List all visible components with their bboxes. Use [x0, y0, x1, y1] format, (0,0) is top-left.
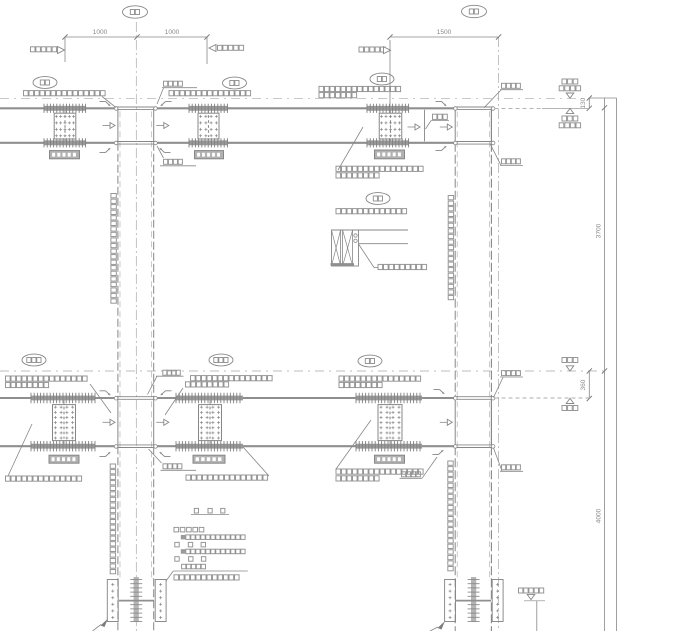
svg-text:3700: 3700 [596, 223, 603, 238]
note row 4 [181, 549, 245, 554]
beam1 splice3 lower text [336, 166, 423, 178]
level ext line mid [495, 397, 590, 399]
beam2 text below splice1 [6, 424, 82, 481]
column A text stack lower [110, 464, 115, 574]
dim note mid [209, 45, 244, 52]
beam1 text above splice2 [169, 91, 251, 96]
axis callout 2 [462, 5, 487, 17]
beam1 splice 2 [189, 104, 228, 159]
column B right flange [490, 108, 492, 631]
beam2 splice 2 [176, 393, 243, 463]
joint A2 weld tr [161, 391, 172, 395]
level mark top up [559, 108, 580, 127]
column A left flange [117, 108, 119, 631]
svg-text:130: 130 [580, 97, 587, 108]
beam2 joint bars col B [454, 396, 495, 448]
column B left flange [454, 108, 456, 631]
joint B2 leader br [494, 448, 524, 471]
note row 7 [166, 571, 248, 581]
level mark mid down [562, 358, 578, 372]
beam2 callout splice3 [358, 355, 382, 367]
note row 2 [181, 535, 245, 540]
dim text 1000 b [165, 29, 180, 36]
dim text 1000 a [93, 29, 108, 36]
joint A2 arrows [103, 419, 169, 425]
beam1 text above splice3 [319, 86, 401, 97]
grid centerline column A [135, 22, 137, 631]
beam2 text above splice2 [186, 376, 273, 387]
level mark top down [559, 79, 580, 98]
beam1 callout splice1 [33, 77, 57, 89]
beam1 callout splice3 [370, 73, 394, 85]
beam2 callout right [209, 354, 233, 366]
dim text 1500 [437, 29, 452, 36]
note row 3 [175, 542, 206, 547]
joint A1 arrows [103, 123, 169, 129]
level mark mid up [562, 398, 578, 410]
joint A2 weld tl [100, 391, 111, 395]
beam2 text above splice1 [6, 376, 88, 388]
svg-text:360: 360 [580, 379, 587, 390]
column B text stack upper [448, 196, 453, 300]
svg-text:1000: 1000 [93, 29, 108, 36]
dim text 4000 [596, 508, 603, 523]
joint A1 weld tr [161, 102, 172, 106]
column B base splice [445, 577, 504, 622]
top dimension line [62, 34, 501, 107]
beam1 top flange [0, 107, 454, 109]
dim 360 line [587, 368, 592, 401]
column A inner lines [120, 111, 152, 578]
X-brace detail [331, 230, 409, 268]
note row 0 [191, 508, 229, 514]
beam1 flange dashed ext [495, 107, 590, 109]
joint A2 weld br [160, 452, 171, 456]
beam1 joint bars col A [114, 107, 157, 145]
dim text 130 [580, 97, 587, 108]
joint A1 text br [157, 146, 196, 166]
dim note left [31, 47, 65, 54]
joint B2 leader tr [494, 371, 524, 398]
column B inner lines [457, 111, 489, 578]
joint B1 weld tl [436, 102, 447, 106]
beam1 splice 1 [44, 104, 86, 159]
joint A2 leader r [165, 388, 183, 415]
top right connector [590, 97, 617, 99]
grid centerline column B [498, 37, 500, 631]
column B base level mark [519, 588, 546, 631]
beam2 flange dashed ext [495, 397, 590, 399]
beam1 splice 3 [367, 104, 409, 159]
detail leader text [378, 264, 427, 269]
beam2 top flange [0, 397, 454, 399]
level ext line top [495, 107, 590, 109]
joint B2 weld tl [434, 390, 445, 394]
joint A2 weld bl [100, 452, 111, 456]
column A text stack [111, 194, 116, 304]
vert dim line 3700 [602, 98, 607, 631]
joint B2 text bl [400, 457, 438, 478]
dim text 3700 [596, 223, 603, 238]
dim note right [359, 47, 391, 54]
joint B2 weld bl [433, 450, 444, 454]
beam2 joint bars col A [114, 396, 157, 448]
beam2 callout left [22, 354, 46, 366]
joint B1 arrows [408, 124, 453, 130]
dim text 360 [580, 379, 587, 390]
beam1 joint bars col B [454, 107, 495, 145]
joint A2 leader tl [90, 384, 111, 413]
joint A1 weld bl [100, 148, 111, 152]
beam2 text below splice2 [186, 447, 269, 480]
beam2 splice 3 [356, 393, 422, 463]
level line lower [0, 370, 605, 372]
joint A1 text tr [157, 81, 197, 104]
beam1 splice3 leader [338, 127, 363, 170]
column A base arrow [93, 619, 109, 631]
joint B1 weld bl [436, 146, 447, 150]
joint B2 arrow [440, 419, 453, 425]
note row 5 [175, 557, 206, 562]
beam2 text below splice3 [336, 420, 423, 481]
beam1 callout splice2 [223, 77, 247, 89]
joint B1 text [426, 114, 450, 129]
note row 1 [174, 527, 204, 532]
level line upper [0, 97, 590, 99]
beam1 text above splice1 [24, 91, 106, 96]
column B base arrow [430, 621, 445, 631]
column A base splice [107, 577, 166, 622]
joint B1 leader tr [484, 83, 523, 108]
joint A2 text br [149, 449, 197, 470]
joint A2 text tr [148, 370, 184, 394]
axis callout 1 [123, 6, 148, 18]
beam2 splice 1 [31, 393, 95, 463]
beam2 text above splice3 [339, 376, 421, 388]
joint A1 weld br [160, 148, 171, 152]
svg-text:1000: 1000 [165, 29, 180, 36]
svg-text:1500: 1500 [437, 29, 452, 36]
column B text stack lower [448, 461, 453, 571]
beam1 bottom flange [0, 142, 454, 144]
vert dim line outer [616, 98, 618, 631]
column A right flange [153, 108, 155, 631]
dim 130 line [587, 95, 592, 111]
joint B1 stiffener [424, 110, 426, 142]
svg-text:4000: 4000 [596, 508, 603, 523]
joint A1 leader tl [102, 97, 116, 108]
note row 6 [182, 564, 206, 569]
beam2 bottom flange [0, 445, 454, 447]
detail title text [336, 209, 407, 214]
joint A1 weld tl [100, 102, 111, 106]
joint B1 leader br [490, 144, 523, 166]
detail callout [366, 193, 390, 205]
